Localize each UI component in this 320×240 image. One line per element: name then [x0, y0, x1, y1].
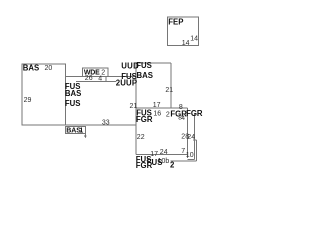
wire: right vertical upper: [170, 63, 172, 108]
svg-text:26: 26: [85, 75, 93, 82]
wire: dim line under WDE: [76, 80, 116, 82]
svg-text:16: 16: [153, 111, 161, 118]
BAS1 callout box: [65, 126, 85, 133]
wire: BAS bottom extension: [66, 124, 136, 126]
svg-text:FGR: FGR: [186, 109, 203, 118]
wire: top edge right section: [136, 62, 171, 64]
wire: mid horizontal: [136, 107, 188, 109]
BAS1 arrow line: [84, 134, 86, 138]
svg-text:24: 24: [160, 149, 168, 156]
svg-text:4: 4: [98, 75, 102, 82]
wire: main vertical: [135, 63, 137, 154]
BAS1 arrowhead: [84, 135, 87, 138]
svg-text:22: 22: [137, 134, 145, 141]
svg-text:FUS: FUS: [65, 99, 81, 108]
svg-text:14: 14: [190, 35, 198, 42]
svg-text:24: 24: [187, 134, 195, 141]
svg-text:FUS: FUS: [147, 158, 163, 167]
svg-text:BAS: BAS: [23, 63, 39, 72]
wire: tick: [193, 139, 197, 141]
svg-text:10: 10: [186, 152, 194, 159]
svg-text:20: 20: [45, 65, 53, 72]
svg-text:21: 21: [165, 87, 173, 94]
wire: tick after 4: [105, 76, 107, 81]
svg-text:2: 2: [170, 160, 175, 169]
svg-text:FGR: FGR: [136, 115, 153, 124]
wire: bottom section line: [136, 153, 188, 155]
svg-text:FEP: FEP: [168, 17, 183, 26]
wire: garage right vertical: [193, 114, 195, 160]
wire: upper story top line: [66, 75, 136, 77]
BAS box: [22, 64, 66, 125]
svg-text:BAS: BAS: [65, 89, 81, 98]
FEP box: [168, 17, 199, 45]
svg-text:14: 14: [182, 40, 190, 47]
svg-text:2: 2: [166, 112, 170, 119]
wire: lower bump bottom: [171, 160, 197, 162]
WDE box: [83, 68, 109, 76]
wire: garage left vertical: [187, 108, 189, 158]
svg-text:29: 29: [24, 97, 32, 104]
svg-text:2UUP: 2UUP: [116, 79, 138, 88]
wire: garage box bottom: [188, 159, 195, 161]
svg-text:17: 17: [153, 102, 161, 109]
svg-text:7: 7: [181, 148, 185, 155]
wire: lower bump right vertical: [196, 140, 198, 161]
svg-text:FUS: FUS: [136, 61, 152, 70]
svg-text:4: 4: [181, 115, 185, 122]
svg-text:BAS: BAS: [137, 71, 153, 80]
svg-text:1: 1: [79, 128, 83, 135]
svg-text:33: 33: [102, 119, 110, 126]
